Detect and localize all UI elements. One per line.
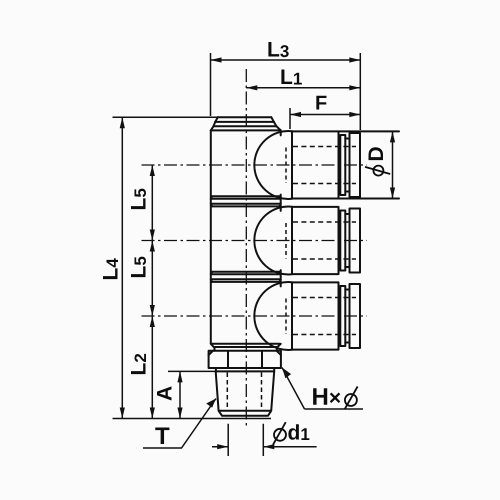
svg-text:D: D [365,146,388,161]
svg-text:L4: L4 [100,258,123,281]
port 3 centerline [142,315,368,317]
port 2 centerline [142,240,368,242]
svg-text:F: F [315,93,327,115]
dimension lines [113,53,393,456]
svg-text:L3: L3 [267,39,289,62]
dim F line [290,114,360,116]
body vertical centerline [245,69,247,429]
svg-text:T: T [155,423,170,450]
port 3 hidden bore [293,298,356,335]
dim chain L5 L5 L2 line [151,165,153,419]
svg-text:d1: d1 [287,422,309,445]
port 3 neck [345,290,349,343]
main body top cap [211,117,281,130]
hex nut [209,351,281,368]
port 2 release collar [350,209,361,273]
arrowheads [120,57,395,449]
dim L4 line [121,117,123,418]
port 2 hidden bore [293,222,356,259]
bottom reference line [113,418,272,420]
port 3 body [292,282,339,349]
port 1 neck [345,139,349,192]
label phiD : phi symbol [365,166,390,176]
port 3 release collar [350,284,361,348]
ext lines phid1 [228,424,263,456]
svg-text:L1: L1 [280,66,302,89]
svg-text:A: A [154,386,177,401]
label phid1 : phi symbol [273,422,286,444]
thread shoulder [216,368,274,371]
body junction ridges 2 [211,272,281,282]
HxPhi leader [282,368,363,410]
ext line F left [289,108,291,129]
svg-text:L2: L2 [127,353,150,375]
label HxPhi : phi symbol [345,387,358,410]
dim L3 line [211,59,361,61]
svg-text:L5: L5 [127,256,150,278]
ext line L3 left [210,53,212,116]
dim phiD line [392,131,394,198]
ext line L4 top [113,116,219,118]
port 1 washer ring [340,135,345,195]
port 1 hidden bore [293,147,356,184]
male thread [216,371,275,415]
ext line A top [168,370,215,372]
port 2 ball [254,207,292,275]
T leader [143,399,216,449]
port 1 ball [254,131,292,199]
port 1 group [254,131,399,199]
port 2 neck [345,214,349,267]
port 3 washer ring [340,286,345,346]
svg-text:L5: L5 [127,188,150,210]
ext line right shared [359,53,361,130]
port 1 centerline [142,164,368,166]
svg-text:H×: H× [311,384,341,411]
port 2 washer ring [340,211,345,271]
dim A line [179,371,181,418]
body junction ridges 1 [211,196,281,206]
port 2 group [254,207,360,275]
port 1 release collar [350,133,361,197]
main body left wall [210,130,212,343]
port 1 body [292,131,399,198]
port 3 ball [254,282,292,350]
dim phid1 lines [212,446,317,448]
main body right wall segments [280,130,282,286]
dim L1 line [246,87,360,89]
body bottom taper [211,344,281,351]
port 2 body [292,207,339,274]
port 3 group [254,282,360,350]
thread hidden minor-diameter lines [227,373,261,412]
